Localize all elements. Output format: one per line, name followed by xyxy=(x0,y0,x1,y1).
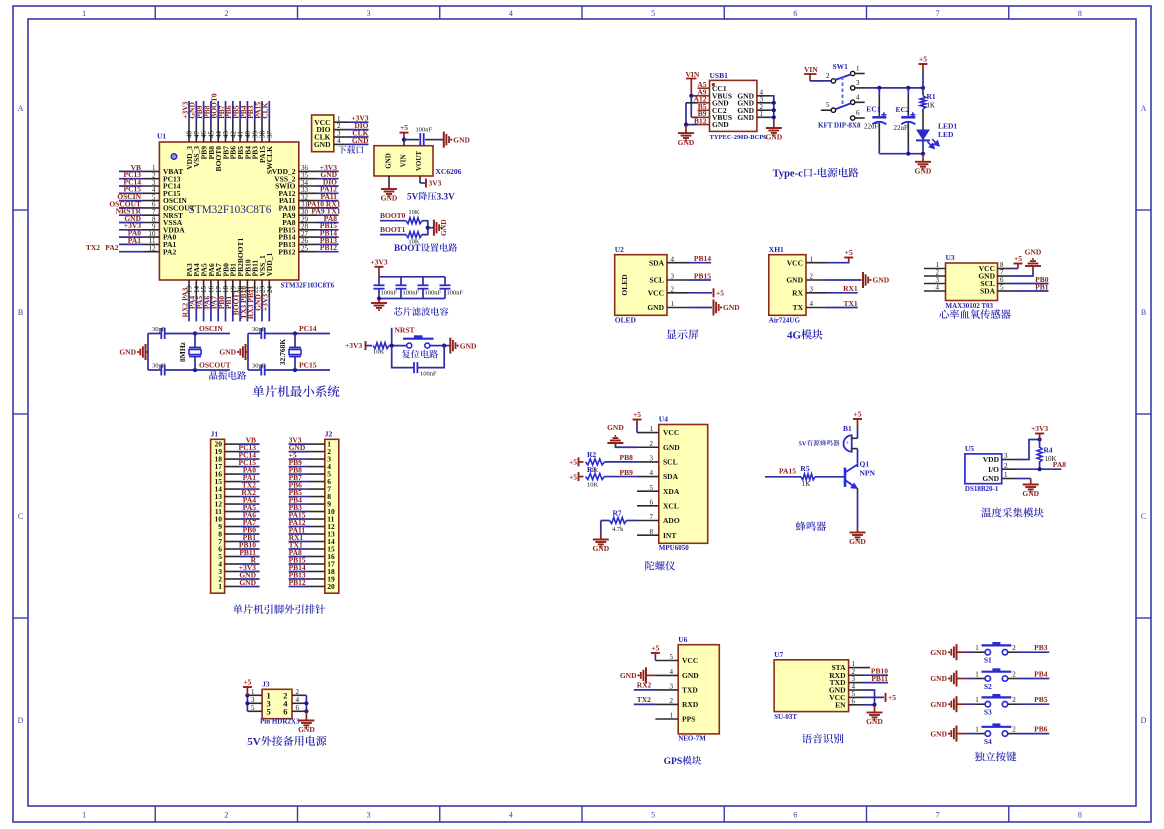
svg-text:2: 2 xyxy=(224,9,228,18)
J2 pin 2 wire (net GND) xyxy=(309,451,325,453)
svg-text:2: 2 xyxy=(1004,462,1008,470)
J2 pin 15 wire (net TX1) xyxy=(309,548,325,550)
crystal 8MHz top wire xyxy=(148,333,161,335)
IC U1 STM32F103C8T6 body xyxy=(159,142,298,280)
svg-text:R3: R3 xyxy=(587,465,596,474)
J1 pin 7 wire (net PB1) xyxy=(225,541,240,543)
ground symbol usb left xyxy=(678,129,694,141)
title voice recognition xyxy=(802,734,812,744)
wire cap to node top 32.768K xyxy=(265,333,330,335)
USB1 left pin B9 VBUS xyxy=(698,116,710,118)
svg-text:PPS: PPS xyxy=(682,715,695,724)
U4 pin 8 INT xyxy=(637,534,659,536)
gnd bars boot xyxy=(434,220,439,236)
svg-text:LED: LED xyxy=(938,130,954,139)
svg-text:GND: GND xyxy=(737,113,754,122)
svg-text:10K: 10K xyxy=(408,209,420,216)
J3 pin 6 right wire xyxy=(292,710,306,712)
svg-text:PB5: PB5 xyxy=(1034,695,1048,704)
svg-text:NPN: NPN xyxy=(860,469,876,478)
svg-text:4: 4 xyxy=(296,696,300,704)
svg-text:GND: GND xyxy=(239,578,256,587)
svg-text:GND: GND xyxy=(866,717,883,726)
U1 pin 46 PB9 wire (net PB9) xyxy=(203,121,205,142)
button S4 xyxy=(985,731,990,736)
wire R2 to pin net PB8 xyxy=(605,461,638,463)
svg-text:TX2: TX2 xyxy=(86,243,100,252)
U1 pin 32 PA11 wire (net PA11) xyxy=(299,200,317,202)
svg-text:TXD: TXD xyxy=(682,686,698,695)
wire +5 to resistor R2 xyxy=(579,461,584,463)
svg-text:22uF: 22uF xyxy=(864,123,879,131)
svg-text:1: 1 xyxy=(1004,471,1008,479)
junction dot io xyxy=(1038,467,1042,471)
svg-text:STM32F103C8T6: STM32F103C8T6 xyxy=(281,282,335,290)
power +5 top right xyxy=(922,64,924,72)
svg-text:3: 3 xyxy=(251,696,255,704)
U3 left pin 3 wire xyxy=(924,283,946,285)
svg-text:PC15: PC15 xyxy=(299,361,317,370)
junction dot top 8MHz xyxy=(193,331,197,335)
svg-text:8: 8 xyxy=(1078,811,1082,820)
svg-text:1K: 1K xyxy=(927,102,936,110)
connector download port body xyxy=(312,115,334,152)
svg-text:1: 1 xyxy=(975,696,979,704)
U5 pin 1 GND xyxy=(1002,478,1016,480)
svg-text:1: 1 xyxy=(670,712,674,720)
U1 pin 1 VBAT wire (net VB) xyxy=(119,170,143,172)
power +5 mpu xyxy=(636,420,638,425)
wire txd RX2 xyxy=(634,689,656,691)
switch pin 5 circle xyxy=(831,108,835,112)
ground symbol voice xyxy=(867,708,883,720)
svg-text:GND: GND xyxy=(119,348,136,357)
wire cap to node top 8MHz xyxy=(165,333,230,335)
wire R5 to base xyxy=(815,476,845,478)
U1 pin 37 SWCLK wire (net CLK) xyxy=(268,121,270,142)
U1 pin 7 NRST wire (net NRSTR) xyxy=(119,214,143,216)
svg-text:5: 5 xyxy=(251,704,255,712)
title buzzer xyxy=(796,521,806,531)
J2 pin 4 wire (net PB9) xyxy=(309,466,325,468)
svg-text:Air724UG: Air724UG xyxy=(769,317,801,325)
svg-text:VIN: VIN xyxy=(804,65,818,74)
wire to ground voice xyxy=(874,705,876,708)
connector J2 header body xyxy=(325,439,339,593)
wire rxd TX2 xyxy=(634,703,656,705)
svg-text:100nF: 100nF xyxy=(420,371,437,378)
download port pin 2 DIO wire (net DIO) xyxy=(334,129,348,131)
wire to gnd bars xyxy=(444,345,450,347)
svg-text:+3V3: +3V3 xyxy=(261,294,270,311)
svg-text:C: C xyxy=(1141,512,1146,521)
svg-text:3: 3 xyxy=(367,9,371,18)
NRST stub wire up xyxy=(391,328,393,346)
J1 pin 1 wire (net GND) xyxy=(225,585,240,587)
wire en join xyxy=(862,704,875,706)
power +5 symbol xyxy=(403,133,405,140)
J3 left rail wire xyxy=(246,695,248,711)
U6 pin 1 PPS xyxy=(655,718,678,720)
svg-text:BOOT: BOOT xyxy=(394,243,421,253)
J2 pin 7 wire (net PB6) xyxy=(309,488,325,490)
svg-text:VIN: VIN xyxy=(400,155,408,168)
download port pin 3 CLK wire (net CLK) xyxy=(334,136,348,138)
svg-text:+5: +5 xyxy=(1014,254,1022,263)
J1 pin 8 wire (net PB0) xyxy=(225,533,240,535)
U1 pin 27 PB14 wire (net PB14) xyxy=(299,236,317,238)
U1 pin 22 PB11 wire (net RX3 PB11) xyxy=(254,280,256,297)
title buttons xyxy=(975,752,985,762)
svg-text:6: 6 xyxy=(793,9,797,18)
U2 pin 3 SCL wire (net PB15) xyxy=(667,279,689,281)
wire +5 to VIN xyxy=(403,140,405,146)
crystal 32.768K top wire xyxy=(248,333,261,335)
U1 pin 5 OSCIN wire (net OSCIN) xyxy=(119,200,143,202)
capacitor 100nF filter 4 xyxy=(444,277,446,286)
svg-text:8MHz: 8MHz xyxy=(178,341,187,362)
filter bottom rail wire xyxy=(379,298,445,300)
power 3V3 bar xyxy=(425,179,427,188)
svg-text:PB12: PB12 xyxy=(289,578,306,587)
title heart rate sensor xyxy=(939,309,949,318)
svg-text:SDA: SDA xyxy=(649,258,665,267)
junction dots on +5 rail xyxy=(877,86,881,90)
svg-text:PA2: PA2 xyxy=(105,243,118,252)
U7 pin 5 VCC xyxy=(849,696,862,698)
svg-text:4: 4 xyxy=(509,811,513,820)
U5 pin 3 VDD xyxy=(1002,459,1016,461)
U4 pin 4 SDA xyxy=(637,476,659,478)
svg-text:GND: GND xyxy=(439,219,448,236)
resistor R2 10K xyxy=(586,459,605,465)
svg-text:1: 1 xyxy=(975,725,979,733)
J3 pin 4 right wire xyxy=(292,702,306,704)
svg-text:U4: U4 xyxy=(659,415,668,424)
svg-text:BOOT1: BOOT1 xyxy=(380,225,406,234)
J2 pin 19 wire (net PB13) xyxy=(309,578,325,580)
svg-text:SDA: SDA xyxy=(663,472,679,481)
ground symbol usb right xyxy=(766,124,782,136)
frame row tick 1 xyxy=(13,209,28,211)
reset loop right wire xyxy=(417,346,444,368)
svg-text:+3V3: +3V3 xyxy=(370,257,387,266)
J1 pin 18 wire (net PC14) xyxy=(225,458,240,460)
U4 pin 1 VCC xyxy=(637,432,659,434)
svg-text:U6: U6 xyxy=(678,635,687,644)
switch arm 5-4 blue xyxy=(835,103,851,109)
switch pin 6 circle xyxy=(851,116,855,120)
svg-text:1: 1 xyxy=(671,300,675,308)
wire scl PB0 xyxy=(1012,283,1049,285)
switch pin 5 stub xyxy=(821,109,831,111)
svg-text:+5: +5 xyxy=(633,410,641,419)
J1 pin 16 wire (net PA0) xyxy=(225,473,240,475)
J2 pin 3 wire (net +5) xyxy=(309,458,325,460)
svg-text:+5: +5 xyxy=(400,123,408,132)
svg-text:1: 1 xyxy=(82,811,86,820)
buzzer B1 symbol xyxy=(844,435,852,451)
svg-text:3: 3 xyxy=(810,285,814,293)
svg-text:PB4: PB4 xyxy=(1034,670,1048,679)
U3 left pin 2 wire xyxy=(924,275,946,277)
switch pin 4 circle xyxy=(851,100,855,104)
U1 pin 34 SWIO wire (net DIO) xyxy=(299,185,317,187)
svg-text:30pF: 30pF xyxy=(252,326,266,333)
svg-text:4: 4 xyxy=(810,300,814,308)
svg-text:KFT DIP-8X8: KFT DIP-8X8 xyxy=(818,122,861,130)
wire rail to gnd xyxy=(428,227,434,229)
U1 pin 19 PB1 wire (net PB1) xyxy=(232,280,234,297)
svg-text:PB15: PB15 xyxy=(694,271,711,280)
svg-text:-: - xyxy=(813,169,817,180)
wire +5 down to rail xyxy=(922,72,924,88)
svg-text:25: 25 xyxy=(301,245,309,253)
svg-text:+: + xyxy=(846,440,850,447)
svg-text:1: 1 xyxy=(82,9,86,18)
J2 pin 18 wire (net PB14) xyxy=(309,570,325,572)
title temperature module xyxy=(981,508,991,518)
svg-text:PA15: PA15 xyxy=(779,466,796,475)
capacitor 30pF bottom 8MHz xyxy=(148,369,161,371)
svg-text:SWCLK: SWCLK xyxy=(265,146,274,174)
USB1 left pin B12 GND xyxy=(698,124,710,126)
svg-text:6: 6 xyxy=(650,498,654,506)
svg-text:XCL: XCL xyxy=(663,501,679,510)
capacitor 30pF top 8MHz xyxy=(160,328,162,339)
svg-text:PB12: PB12 xyxy=(320,243,337,252)
svg-text:+5: +5 xyxy=(243,678,251,687)
switch pin 6 stub xyxy=(855,117,865,119)
ground symbol max (rake up) xyxy=(1025,259,1041,266)
USB1 left pin A9 VBUS xyxy=(698,95,710,97)
svg-text:2: 2 xyxy=(826,72,830,80)
wire cap to node bottom 32.768K xyxy=(265,369,330,371)
svg-text:B: B xyxy=(18,308,23,317)
title display xyxy=(667,329,677,338)
resistor R1 vertical xyxy=(922,88,924,91)
svg-text:6: 6 xyxy=(793,811,797,820)
svg-text:GND: GND xyxy=(352,136,369,145)
svg-text:GND: GND xyxy=(930,674,947,683)
svg-text:GND: GND xyxy=(723,303,740,312)
connector J3 body xyxy=(262,689,292,718)
frame column tick 1 xyxy=(154,6,156,19)
J2 pin 16 wire (net PA8) xyxy=(309,555,325,557)
svg-text:2: 2 xyxy=(1012,670,1016,678)
U7 pin 2 RXD xyxy=(849,674,862,676)
U4 pin 5 XDA xyxy=(637,490,659,492)
svg-text:EC1: EC1 xyxy=(866,104,880,113)
U1 pin 48 VDD_3 wire (net +3V3) xyxy=(188,121,190,142)
U1 pin 12 PA2 wire (net PA2) xyxy=(119,251,143,253)
svg-text:+5: +5 xyxy=(716,289,724,298)
reset button S xyxy=(407,343,412,348)
capacitor 100nF filter 1 xyxy=(378,277,380,286)
svg-text:U2: U2 xyxy=(615,245,624,254)
svg-text:6: 6 xyxy=(852,697,856,705)
capacitor 100nF filter 3 xyxy=(422,277,424,286)
svg-text:1: 1 xyxy=(218,582,222,591)
wire button S3 to PB5 xyxy=(1008,703,1018,705)
connector USB1 TYPE-C body xyxy=(710,80,757,131)
svg-text:GPS: GPS xyxy=(664,756,683,767)
wire R7 down to gnd xyxy=(600,521,602,534)
U1 pin 36 VDD_2 wire (net +3V3) xyxy=(299,170,317,172)
U1 pin 24 VDD_1 wire (net +3V3) xyxy=(268,280,270,297)
svg-text:VCC: VCC xyxy=(682,656,698,665)
svg-text:GND: GND xyxy=(219,348,236,357)
junction dot top 32.768K xyxy=(293,331,297,335)
wire vcc to +5 xyxy=(862,696,884,698)
svg-text:7: 7 xyxy=(650,513,654,521)
svg-text:PB14: PB14 xyxy=(694,254,711,263)
power +5 J3 xyxy=(246,687,248,692)
U1 pin 25 PB12 wire (net PB12) xyxy=(299,251,317,253)
svg-text:3V3: 3V3 xyxy=(429,179,442,188)
wire vcc to +5 xyxy=(636,425,638,433)
wire PA15 base xyxy=(765,476,801,478)
U3 right pin 7 GND xyxy=(998,275,1013,277)
svg-text:32.768K: 32.768K xyxy=(278,339,287,366)
title download port xyxy=(338,146,346,154)
svg-text:B1: B1 xyxy=(843,424,852,433)
U6 pin 5 VCC xyxy=(655,660,678,662)
USB1 right pin 3 GND xyxy=(757,102,770,104)
svg-text:5: 5 xyxy=(826,101,830,109)
svg-text:3: 3 xyxy=(367,811,371,820)
svg-text:PA2: PA2 xyxy=(163,247,176,256)
button S1 xyxy=(985,650,990,655)
svg-text:22uF: 22uF xyxy=(894,124,909,132)
XC6206 VOUT pin wire xyxy=(419,176,421,183)
svg-text:OLED: OLED xyxy=(615,316,637,325)
svg-text:U1: U1 xyxy=(157,132,166,141)
wire VBUS A9 to B9 xyxy=(690,96,692,118)
connector XH1 4G body xyxy=(769,255,806,316)
U1 pin 29 PA8 wire (net PA8) xyxy=(299,222,317,224)
svg-text:J3: J3 xyxy=(262,680,270,689)
U7 pin 3 TXD xyxy=(849,682,862,684)
title header breakout xyxy=(233,604,243,613)
svg-text:GND: GND xyxy=(381,194,398,203)
ground symbol power xyxy=(922,154,924,158)
J1 pin 20 wire (net VB) xyxy=(225,443,240,445)
svg-text:S1: S1 xyxy=(984,656,992,665)
wire emitter down to gnd xyxy=(857,488,859,492)
wire button S2 to PB4 xyxy=(1008,678,1018,680)
U7 pin 4 GND xyxy=(849,689,862,691)
U1 pin 28 PB15 wire (net PB15) xyxy=(299,229,317,231)
filter top rail wire xyxy=(379,276,445,278)
J1 pin 10 wire (net PA6) xyxy=(225,518,240,520)
crystal 32.768K symbol xyxy=(294,334,296,348)
svg-text:GND: GND xyxy=(765,133,782,142)
svg-text:6: 6 xyxy=(856,109,860,117)
U1 pin 17 PA7 wire (net PA7) xyxy=(217,280,219,297)
resistor R4 10K vertical xyxy=(1039,440,1041,449)
wire R3 to pin net PB9 xyxy=(605,476,638,478)
U1 pin 9 VDDA wire (net +3V3) xyxy=(119,229,143,231)
wire vdd up to +3V3 node xyxy=(1016,440,1040,460)
svg-text:RX: RX xyxy=(792,288,803,297)
sensor U5 DS18B20 body xyxy=(965,454,1002,484)
svg-text:GND: GND xyxy=(678,138,695,147)
U1 pin 4 PC15 wire (net PC15) xyxy=(119,192,143,194)
capacitor 100nF plates xyxy=(419,133,421,146)
svg-text:+5: +5 xyxy=(569,472,577,481)
svg-text:R7: R7 xyxy=(613,509,622,518)
svg-text:GND: GND xyxy=(1025,248,1042,257)
junction dot bottom 32.768K xyxy=(293,368,297,372)
U4 pin 2 GND xyxy=(637,446,659,448)
svg-text:5V: 5V xyxy=(247,736,260,748)
svg-text:PB8: PB8 xyxy=(620,453,634,462)
svg-text:5: 5 xyxy=(651,9,655,18)
svg-text:OLED: OLED xyxy=(620,274,629,296)
U1 pin 43 PB7 wire (net PB7) xyxy=(225,121,227,142)
U1 pin 6 OSCOUT wire (net OSCOUT) xyxy=(119,207,143,209)
svg-text:3: 3 xyxy=(671,273,675,281)
gnd bars S2 xyxy=(951,671,956,687)
resistor R7 4.7k xyxy=(601,520,610,522)
junction dot usb gnd left xyxy=(684,123,688,127)
svg-text:2: 2 xyxy=(224,811,228,820)
ground symbol R7 xyxy=(593,535,609,547)
wire sw pin3 to rail xyxy=(855,87,865,89)
svg-text:C: C xyxy=(18,512,23,521)
USB1 right pin 4 GND xyxy=(757,95,770,97)
svg-text:1: 1 xyxy=(975,644,979,652)
junction dot reset left xyxy=(390,344,394,348)
U1 pin 30 PA9 wire (net PA9) xyxy=(299,214,317,216)
wire button S1 to PB3 xyxy=(1008,651,1018,653)
svg-text:VCC: VCC xyxy=(663,428,679,437)
svg-text:4: 4 xyxy=(856,94,860,102)
svg-text:EC2: EC2 xyxy=(896,105,910,114)
U1 pin 23 VSS_1 wire (net GND) xyxy=(261,280,263,297)
wire rxd PB10 xyxy=(862,674,888,676)
J1 pin 13 wire (net RX2) xyxy=(225,496,240,498)
svg-text:2: 2 xyxy=(670,697,674,705)
svg-text:RX1: RX1 xyxy=(843,284,858,293)
wire A12 gnd left xyxy=(686,102,698,104)
svg-text:TX2: TX2 xyxy=(637,695,651,704)
gnd bars crystal 8MHz xyxy=(140,344,145,360)
wire VIN down to VBUS A9 xyxy=(690,79,692,96)
ground symbol J3 xyxy=(298,716,314,728)
svg-text:100nF: 100nF xyxy=(403,290,420,297)
gnd bars crystal 32.768K xyxy=(240,344,245,360)
svg-text:ADO: ADO xyxy=(663,516,680,525)
power +3V3 temp xyxy=(1039,434,1041,440)
bottom rail wire xyxy=(879,153,923,155)
svg-text:4: 4 xyxy=(337,137,341,145)
gnd bars gps xyxy=(641,667,646,683)
svg-text:24: 24 xyxy=(266,286,274,294)
wire button S4 to PB6 xyxy=(1008,733,1018,735)
U1 pin 10 PA0 wire (net PA0) xyxy=(119,236,143,238)
usb rail joins xyxy=(770,102,774,104)
junction dot 3v3 node xyxy=(1038,437,1042,441)
svg-text:BOOT0: BOOT0 xyxy=(380,211,406,220)
svg-text:GND: GND xyxy=(620,671,637,680)
button S2 xyxy=(985,676,990,681)
wire capacitor to GND bars xyxy=(425,139,437,141)
U1 pin 20 PB2BOOT1 wire (net BOOT1) xyxy=(239,280,241,297)
svg-text:Type-c: Type-c xyxy=(773,169,803,180)
svg-text:+5: +5 xyxy=(845,248,853,257)
